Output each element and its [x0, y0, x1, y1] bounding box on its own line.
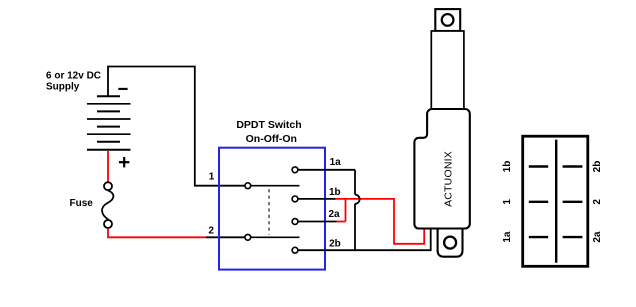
svg-text:1: 1 [502, 199, 513, 205]
svg-text:1b: 1b [329, 187, 341, 198]
svg-text:Supply: Supply [46, 82, 80, 93]
svg-text:2b: 2b [592, 161, 603, 173]
wire 2b black to actuator [298, 228, 430, 250]
connector terminal dash 1 [529, 201, 548, 203]
connector terminal dash 1a [529, 236, 548, 238]
switch pole 1 [245, 183, 251, 189]
connector terminal dash 2 [563, 201, 583, 203]
connector terminal dash 1b [529, 165, 548, 167]
DPDT switch box U1 [219, 148, 325, 270]
actuator rod [431, 31, 464, 112]
wire black vertical 1a to 2b [354, 170, 356, 250]
connector terminal dash 2a [563, 236, 583, 238]
switch throw 2a [292, 219, 298, 225]
actuator top clevis [435, 9, 460, 31]
switch throw 1b [292, 196, 298, 202]
svg-text:1: 1 [209, 171, 215, 182]
connector block outline [523, 136, 588, 266]
wire black: into pole 2 [206, 236, 245, 238]
DPDT switch title [236, 119, 301, 145]
battery BT1 label "6 or 12v DC Supply" [46, 70, 101, 92]
svg-text:1a: 1a [502, 231, 513, 243]
wire 1b red to actuator [336, 199, 424, 244]
wire positive red: battery bottom to fuse [107, 151, 109, 182]
svg-text:DPDT Switch: DPDT Switch [236, 119, 301, 131]
actuator bottom clevis [438, 229, 463, 257]
svg-text:On-Off-On: On-Off-On [246, 133, 297, 145]
actuator bottom clevis hole [444, 237, 456, 249]
svg-text:Fuse: Fuse [70, 198, 94, 209]
actuator body M1 [414, 109, 469, 229]
connector block center bar [555, 140, 557, 263]
wire 1b black stub [298, 198, 335, 200]
wire red: fuse to switch pole 2 [108, 229, 206, 237]
wire 2a black stub [298, 221, 336, 223]
svg-text:2b: 2b [329, 239, 341, 250]
connector terminal dash 2b [563, 165, 583, 167]
svg-text:1a: 1a [330, 157, 342, 168]
wire red jumper 1b-2a [345, 199, 347, 222]
switch lever 1 [251, 185, 299, 187]
fuse F1 [102, 182, 113, 228]
wire 2a red stub [337, 221, 346, 223]
svg-text:2: 2 [592, 199, 603, 205]
switch lever 2 [251, 236, 299, 238]
svg-text:ACTUONIX: ACTUONIX [443, 151, 455, 207]
svg-text:2a: 2a [329, 209, 341, 220]
wire 1a black [298, 169, 355, 171]
switch pole 2 [245, 234, 251, 240]
svg-text:1b: 1b [502, 161, 513, 173]
wire hop: black jumps over red [355, 195, 360, 204]
battery BT1 [87, 96, 131, 150]
wire negative: battery top to switch pole 1 [108, 67, 245, 186]
svg-text:6 or 12v DC: 6 or 12v DC [46, 70, 101, 81]
switch mechanical link (dashed) [268, 189, 270, 234]
actuator top clevis hole [442, 14, 454, 26]
battery minus sign [118, 88, 127, 90]
svg-text:2a: 2a [592, 231, 603, 243]
svg-text:2: 2 [208, 226, 214, 237]
battery plus sign [119, 157, 129, 167]
switch throw 2b [292, 247, 298, 253]
switch throw 1a [292, 167, 298, 173]
